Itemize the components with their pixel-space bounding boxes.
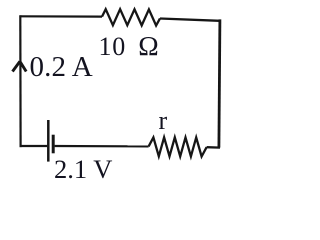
wire bottom-right segment [207,146,220,149]
label 10 ohm [99,32,126,62]
wire top-right segment [160,19,220,21]
battery long plate [47,120,50,162]
label ohm symbol [138,30,158,62]
label 2.1 V [54,154,112,185]
battery short plate [52,135,55,154]
wire bottom-left segment [20,145,48,147]
resistor r [149,137,207,156]
wire top-left segment [20,15,102,18]
wire right side [219,19,220,147]
label r [159,106,168,136]
wire bottom-middle segment [55,145,149,148]
resistor R1 10 ohm [102,9,160,25]
wire left side [19,15,22,147]
label 0.2 A [30,51,93,84]
current arrow 0.2 A [13,61,27,71]
